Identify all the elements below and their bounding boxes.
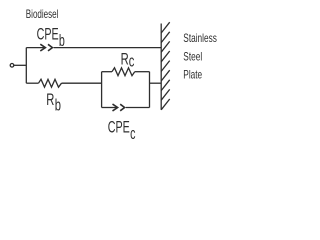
svg-text:Biodiesel: Biodiesel — [26, 9, 59, 22]
wire junction vertical — [25, 48, 27, 84]
electrode stainless steel plate — [160, 24, 162, 110]
svg-text:c: c — [130, 123, 135, 142]
wire box top right — [135, 71, 150, 73]
svg-text:b: b — [55, 95, 61, 114]
label Biodiesel — [26, 9, 59, 22]
resistor Rb — [39, 79, 62, 87]
svg-text:b: b — [59, 30, 65, 49]
wire box left vertical — [101, 72, 103, 108]
svg-text:CPE: CPE — [37, 24, 59, 43]
electrode hatching — [161, 22, 170, 110]
svg-text:Steel: Steel — [183, 51, 202, 64]
resistor Rc — [112, 68, 135, 76]
wire top branch left — [26, 47, 45, 49]
terminal node — [10, 64, 14, 68]
svg-text:R: R — [46, 90, 54, 109]
svg-text:R: R — [121, 49, 129, 68]
wire terminal to junction — [14, 64, 26, 66]
svg-text:Stainless: Stainless — [183, 33, 217, 46]
label Rc — [121, 49, 135, 70]
wire box right vertical — [149, 72, 151, 108]
svg-text:Plate: Plate — [183, 70, 202, 83]
CPE CPEc — [113, 104, 125, 111]
wire box to electrode — [150, 82, 162, 84]
wire box bottom right — [126, 107, 150, 109]
wire box top left — [102, 71, 112, 73]
label CPEb — [37, 24, 65, 49]
label Rb — [46, 90, 61, 114]
wire main left — [26, 82, 38, 84]
svg-text:c: c — [129, 51, 135, 70]
wire box bottom left — [102, 107, 118, 109]
label CPEc — [108, 117, 136, 142]
label Stainless Steel Plate — [183, 33, 217, 82]
svg-text:CPE: CPE — [108, 117, 130, 136]
wire Rb to box — [62, 82, 102, 84]
CPE CPEb — [40, 44, 52, 51]
wire top branch right — [54, 47, 162, 49]
